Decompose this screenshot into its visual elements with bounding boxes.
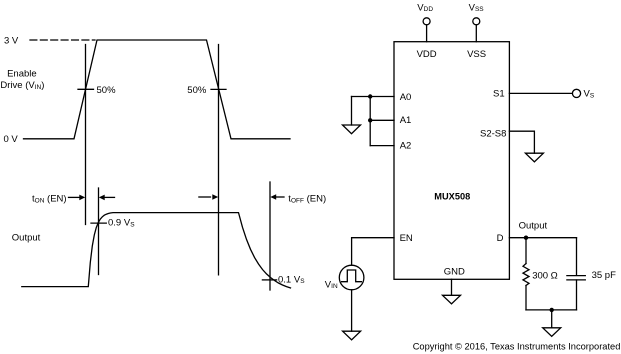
value label 35 pF	[592, 270, 616, 281]
svg-text:VS: VS	[584, 89, 595, 100]
pin label VDD	[417, 49, 437, 60]
label 0.9 Vs	[108, 218, 135, 229]
svg-text:0.1 VS: 0.1 VS	[278, 274, 305, 285]
wire S1	[509, 92, 572, 94]
wire A0	[352, 96, 395, 98]
wire address bus vertical	[369, 97, 371, 146]
wire VSS terminal to box	[475, 25, 477, 42]
VDD terminal	[423, 18, 430, 25]
50% marker vertical line (falling edge)	[218, 45, 220, 275]
ground (address pins)	[343, 125, 361, 134]
pin label D	[497, 233, 504, 244]
pulse source VIN	[339, 265, 364, 290]
svg-text:VSS: VSS	[467, 49, 486, 60]
svg-text:Copyright © 2016, Texas Instru: Copyright © 2016, Texas Instruments Inco…	[413, 342, 621, 352]
wire GND pin	[451, 279, 453, 295]
svg-text:A1: A1	[400, 115, 412, 126]
svg-text:Output: Output	[519, 221, 548, 232]
wire EN	[352, 238, 394, 266]
tOFF arrow right	[199, 194, 218, 200]
svg-text:VSS: VSS	[469, 2, 485, 13]
enable drive waveform	[24, 40, 291, 139]
svg-text:VDD: VDD	[417, 2, 433, 13]
wire D to resistor	[525, 238, 527, 264]
pin label A2	[400, 141, 412, 152]
svg-text:GND: GND	[444, 267, 465, 278]
label VSS net	[469, 2, 485, 13]
resistor R 300 ohm	[523, 264, 529, 286]
label VS net	[584, 89, 595, 100]
svg-text:50%: 50%	[97, 85, 117, 96]
svg-text:A2: A2	[400, 141, 412, 152]
wire VDD terminal to box	[426, 25, 428, 42]
label Enable Drive (VIN)	[0, 69, 44, 92]
pin label EN	[400, 233, 413, 244]
label 3 V	[4, 36, 19, 47]
wire D output	[509, 237, 576, 239]
0.9Vs marker vertical line	[98, 188, 100, 275]
pin label GND	[444, 267, 465, 278]
svg-text:50%: 50%	[187, 85, 207, 96]
wire capacitor to rail	[576, 280, 578, 310]
VSS terminal	[473, 18, 480, 25]
0.9Vs tick	[91, 222, 106, 224]
svg-text:A0: A0	[400, 92, 412, 103]
wire A1	[370, 119, 394, 121]
label MUX508	[434, 192, 470, 202]
ground (VIN source)	[343, 331, 361, 340]
50% tick (falling edge)	[211, 88, 226, 90]
ground (S2-S8)	[525, 153, 543, 162]
junction A0	[368, 94, 372, 98]
copyright text	[413, 342, 621, 352]
label 50% rising	[97, 85, 117, 96]
junction A1	[368, 118, 372, 122]
label 0 V	[4, 134, 19, 145]
svg-text:D: D	[497, 233, 504, 244]
label VIN net	[325, 279, 338, 290]
label VDD net	[417, 2, 433, 13]
wire address to ground	[351, 97, 353, 126]
svg-text:tOFF (EN): tOFF (EN)	[288, 194, 326, 205]
50% marker vertical line (rising edge)	[85, 45, 87, 225]
VS terminal	[572, 89, 580, 97]
ground (RC load)	[543, 328, 561, 337]
svg-text:0 V: 0 V	[4, 134, 19, 145]
tON arrow right	[69, 195, 86, 201]
wire resistor to rail	[525, 286, 527, 310]
tOFF arrow left	[270, 194, 284, 200]
label 50% falling	[187, 85, 207, 96]
0.1Vs marker vertical line	[269, 182, 271, 290]
label Output (timing)	[12, 233, 41, 244]
capacitor C 35pF	[567, 276, 585, 280]
svg-text:3 V: 3 V	[4, 36, 19, 47]
svg-text:VDD: VDD	[417, 49, 437, 60]
svg-text:0.9 VS: 0.9 VS	[108, 218, 135, 229]
3V reference dashed line	[30, 39, 95, 41]
svg-text:Enable: Enable	[7, 69, 37, 80]
svg-text:S1: S1	[493, 89, 505, 100]
tON arrow left	[99, 195, 115, 201]
svg-text:35 pF: 35 pF	[592, 270, 616, 281]
label tON (EN)	[32, 194, 67, 205]
wire S2-S8	[509, 131, 534, 153]
50% tick (rising edge)	[78, 88, 94, 90]
wire bottom rail	[526, 309, 577, 311]
pin label S1	[493, 89, 505, 100]
pin label A1	[400, 115, 412, 126]
wire output to capacitor	[576, 238, 578, 276]
svg-text:S2-S8: S2-S8	[480, 129, 506, 140]
junction D output	[524, 236, 528, 240]
svg-text:Output: Output	[12, 233, 41, 244]
svg-text:EN: EN	[400, 233, 413, 244]
MUX508 box U1	[394, 42, 509, 280]
svg-text:tON (EN): tON (EN)	[32, 194, 67, 205]
label Output net	[519, 221, 548, 232]
pin label VSS	[467, 49, 486, 60]
junction bottom rail	[550, 308, 554, 312]
svg-text:MUX508: MUX508	[434, 192, 470, 202]
output waveform	[22, 213, 291, 288]
wire VIN to ground	[351, 290, 353, 331]
pin label S2-S8	[480, 129, 506, 140]
pin label A0	[400, 92, 412, 103]
svg-text:VIN: VIN	[325, 279, 338, 290]
wire A2	[370, 145, 394, 147]
label tOFF (EN)	[288, 194, 326, 205]
ground (GND pin)	[443, 295, 461, 304]
wire rail to ground	[551, 310, 553, 328]
svg-text:300 Ω: 300 Ω	[532, 270, 558, 281]
0.1Vs tick	[262, 279, 276, 281]
label 0.1 Vs	[278, 274, 305, 285]
value label 300 ohm	[532, 270, 558, 281]
svg-text:Drive (VIN): Drive (VIN)	[0, 80, 44, 91]
